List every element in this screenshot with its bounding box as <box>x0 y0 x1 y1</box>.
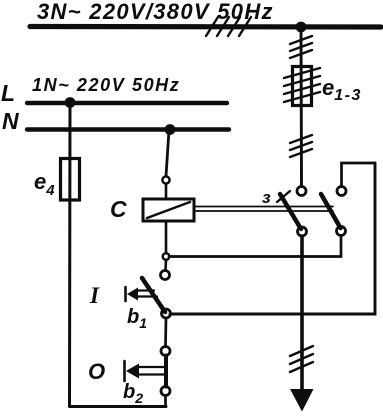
wire: N to coil top <box>166 130 169 176</box>
phase line L <box>27 101 227 105</box>
b1 push actuator triangle <box>127 288 138 301</box>
aux holding contact top terminal <box>337 187 346 196</box>
b1 blade <box>142 278 165 312</box>
wire: aux contact top to right riser <box>342 163 376 187</box>
coil top terminal <box>162 176 169 183</box>
wire: right riser down <box>170 163 375 314</box>
wire: motor feeder down <box>300 236 304 390</box>
three-phase supply bus <box>30 24 381 30</box>
b1 actuator link lines <box>138 289 154 291</box>
main contact bottom terminal <box>298 227 307 236</box>
wire: b1 to b2 <box>164 318 167 347</box>
wire: terminal to coil <box>165 184 168 199</box>
triple-slash (3 conductors) above fuse <box>290 36 312 58</box>
b2 actuator link lines <box>139 366 164 368</box>
aux holding contact bottom terminal <box>337 227 346 236</box>
svg-text:C: C <box>110 196 127 222</box>
junction dot on bus <box>296 22 307 33</box>
neutral line N <box>27 127 229 131</box>
svg-text:1N~ 220V 50Hz: 1N~ 220V 50Hz <box>32 75 180 95</box>
svg-text:I: I <box>89 283 100 308</box>
fuse e1-3 <box>293 67 312 106</box>
main contact blade <box>280 194 301 229</box>
b2 blade (closed) <box>164 356 168 387</box>
triple-slash (3 conductors) below fuse <box>290 135 312 157</box>
aux contact blade <box>321 194 341 228</box>
b2 push actuator bar <box>123 361 126 381</box>
svg-text:N: N <box>2 108 19 134</box>
mechanical link (double line) from coil to blades <box>194 206 333 208</box>
wire: L branch down left side <box>70 103 167 407</box>
stop button b2 top terminal <box>161 347 170 356</box>
svg-text:L: L <box>1 80 15 106</box>
arrowhead to motor <box>290 389 314 412</box>
fuse e4 <box>61 159 80 201</box>
b2 bottom terminal <box>161 387 170 396</box>
b1 bottom terminal <box>162 309 171 318</box>
triple-slash (3 conductors) on motor feeder <box>290 346 313 372</box>
bus conductor hatch marks (4 slashes) <box>206 17 251 36</box>
main contact top terminal <box>297 187 306 196</box>
coil diagonal <box>147 202 190 218</box>
coil bottom junction terminal <box>163 253 170 260</box>
svg-text:O: O <box>88 359 105 384</box>
wire: coil bottom down <box>165 221 168 253</box>
wire: aux contact bottom to coil junction <box>169 236 341 257</box>
tick across main blade top <box>277 191 290 202</box>
svg-text:з: з <box>262 188 271 207</box>
b1 push actuator bar <box>124 287 127 301</box>
fuse e1-3 hatch strokes <box>284 68 320 102</box>
contactor coil C <box>143 199 194 221</box>
b2 push actuator triangle <box>126 364 139 379</box>
wire: b2 bottom to bottom rail <box>164 396 167 407</box>
junction dot on L <box>65 97 76 108</box>
junction dot on N <box>165 124 176 135</box>
wire: feeder from bus to main contact <box>300 27 303 187</box>
wire: junction to start button <box>164 260 167 271</box>
start button b1 top terminal <box>161 271 170 280</box>
